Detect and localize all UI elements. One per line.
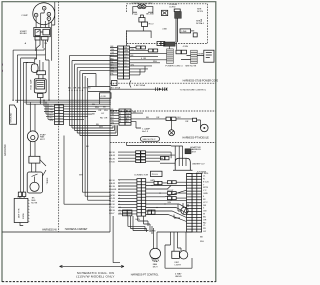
svg-text:BU: BU — [68, 88, 71, 90]
ground terminal hatched — [164, 42, 176, 46]
wires down from strips — [128, 216, 150, 232]
svg-text:WH: WH — [124, 51, 128, 53]
overload terminal box — [37, 71, 46, 75]
svg-text:4 OR: 4 OR — [101, 96, 107, 98]
svg-text:GN-Y: GN-Y — [109, 213, 115, 215]
svg-text:TN: TN — [111, 70, 114, 72]
grn splice boxes — [154, 181, 158, 184]
section divider right y111 — [110, 110, 216, 112]
terminal row below relay — [35, 37, 40, 40]
relay inner left — [35, 29, 40, 35]
junction dots bundle — [71, 100, 72, 101]
note pill box — [141, 137, 160, 142]
wires strip to icemaker strip — [146, 182, 187, 221]
svg-text:OR: OR — [185, 121, 189, 123]
svg-text:RD: RD — [111, 120, 115, 122]
compressor start winding pin — [42, 6, 46, 10]
relay inner right — [43, 29, 50, 35]
wire into hood — [160, 162, 175, 164]
svg-text:GN: GN — [111, 122, 115, 124]
run capacitor plates — [37, 82, 44, 86]
section divider right y142 — [110, 142, 216, 144]
wire bus y55 — [17, 54, 45, 56]
svg-text:GY-W: GY-W — [109, 192, 116, 194]
defrost thermostat box — [29, 156, 40, 163]
svg-text:MOT: MOT — [153, 266, 159, 268]
wire row labels right of stack — [131, 49, 158, 66]
wire risers into icemaker hood — [127, 143, 186, 167]
svg-text:OR: OR — [50, 112, 54, 114]
svg-text:VALVE: VALVE — [175, 275, 182, 278]
inline pair boxes — [166, 117, 171, 120]
crossing bends — [174, 203, 188, 218]
module stack left stubs — [110, 110, 119, 124]
svg-text:BU: BU — [111, 55, 114, 57]
module stack left labels — [111, 109, 115, 125]
wire left edge drop — [113, 216, 120, 263]
svg-text:4 WAY: 4 WAY — [175, 272, 182, 275]
lamp module circle — [169, 130, 175, 136]
svg-text:BU-W: BU-W — [109, 186, 116, 188]
splice pairs mid — [167, 181, 171, 184]
icemaker strip labels — [203, 176, 209, 234]
svg-text:GND: GND — [203, 193, 208, 195]
wire into overload — [35, 45, 43, 71]
svg-text:BU: BU — [124, 57, 127, 59]
svg-text:WH: WH — [104, 110, 108, 112]
bus drops to left stack — [44, 100, 48, 119]
power cord cable double line — [176, 18, 177, 42]
svg-text:BU-W: BU-W — [167, 190, 174, 192]
module wire labels — [133, 111, 189, 122]
svg-text:YL-W: YL-W — [109, 201, 115, 203]
svg-text:RELAY: RELAY — [20, 32, 28, 35]
control board connector strip — [137, 179, 146, 217]
small box pair above row — [157, 42, 161, 46]
svg-text:RD: RD — [126, 121, 130, 123]
svg-text:PK-W: PK-W — [109, 204, 116, 206]
wire thermostat to timer — [32, 163, 36, 172]
svg-text:BU: BU — [203, 216, 206, 218]
svg-text:OR: OR — [104, 118, 108, 120]
svg-text:HARNESS-PT CONTROL: HARNESS-PT CONTROL — [131, 273, 159, 276]
svg-text:RD-W: RD-W — [109, 198, 116, 200]
svg-text:600W: 600W — [23, 212, 25, 219]
svg-text:BR-W: BR-W — [109, 210, 116, 212]
wire into heater — [20, 197, 24, 199]
svg-text:CONNECTOR: CONNECTOR — [134, 175, 148, 177]
svg-text:COMPRESSOR CIRC: COMPRESSOR CIRC — [131, 3, 153, 5]
svg-text:GRN: GRN — [150, 180, 155, 182]
svg-text:LIGHT: LIGHT — [175, 265, 182, 267]
defrost timer cam — [30, 182, 39, 191]
svg-text:HARNESS-W: HARNESS-W — [42, 229, 57, 232]
svg-text:WH: WH — [200, 241, 204, 243]
left stack rows wires — [44, 106, 110, 119]
wire fan motor down — [30, 141, 35, 156]
svg-text:COMP: COMP — [21, 15, 28, 17]
comp-circ plug — [139, 18, 145, 22]
divider junction dots — [109, 89, 110, 205]
moisture control wire — [88, 87, 167, 92]
wire relay drops — [36, 37, 48, 56]
svg-text:HARNESS-PT MODULE: HARNESS-PT MODULE — [183, 137, 210, 140]
bundle lower bends to right — [69, 126, 117, 136]
svg-text:GN: GN — [111, 67, 115, 69]
svg-text:SEE NOTE 2: SEE NOTE 2 — [143, 139, 157, 141]
svg-text:VT-W: VT-W — [109, 207, 115, 209]
svg-text:GY-W: GY-W — [109, 161, 116, 163]
small box — [193, 118, 197, 121]
svg-text:BU: BU — [111, 117, 114, 119]
heater box — [14, 198, 28, 222]
svg-text:GRN: GRN — [135, 219, 140, 221]
border mark — [2, 64, 3, 66]
svg-text:RUN CAP: RUN CAP — [30, 79, 33, 89]
svg-text:DR: DR — [203, 205, 207, 207]
bottom rows wires left — [118, 180, 137, 214]
svg-text:SEE NOTE: SEE NOTE — [185, 66, 197, 68]
icemaker terminal column — [187, 174, 193, 233]
icemaker plug dark — [185, 149, 191, 154]
defrost timer square — [204, 50, 214, 62]
bundle label dots — [69, 90, 83, 91]
svg-text:BK-W: BK-W — [109, 180, 116, 182]
wire compressor pins to relay — [36, 10, 49, 28]
section divider horizontal left — [2, 231, 110, 233]
svg-text:4 BK 18GA: 4 BK 18GA — [134, 84, 145, 87]
compressor pin left — [34, 13, 38, 17]
leader to timer label — [40, 160, 46, 176]
svg-text:RD: RD — [124, 60, 128, 62]
wire cap to bus — [40, 55, 49, 104]
svg-text:CORD: CORD — [169, 7, 176, 9]
wire to timer square — [181, 56, 204, 60]
svg-text:WTR: WTR — [203, 187, 208, 189]
brace under stack — [130, 81, 131, 88]
svg-text:A=1.5: A=1.5 — [142, 130, 149, 133]
svg-text:WH-BK: WH-BK — [109, 189, 117, 191]
start relay / overload box — [34, 28, 51, 37]
power cord terminal block — [175, 12, 182, 19]
svg-text:NOTE 4: NOTE 4 — [196, 23, 205, 25]
evap fan motor hub — [31, 136, 35, 140]
svg-text:OR: OR — [111, 114, 115, 116]
bottom splice group left — [123, 210, 132, 216]
wire bus y59 — [21, 58, 37, 63]
svg-text:E 120: E 120 — [203, 181, 209, 183]
relay contact mark — [37, 31, 43, 33]
svg-text:WH: WH — [50, 109, 54, 111]
svg-text:OR-W: OR-W — [109, 155, 116, 157]
note box — [193, 33, 197, 37]
svg-text:RD: RD — [203, 222, 207, 224]
compressor shell — [33, 3, 55, 25]
freezer light bulb holder — [172, 251, 180, 258]
stack left stub wires — [110, 48, 118, 75]
svg-text:DEF HTR: DEF HTR — [19, 208, 21, 218]
center wire bundle verticals — [69, 56, 87, 201]
top rows wires — [118, 152, 175, 161]
svg-text:PLUG: PLUG — [152, 174, 158, 176]
wire bus y102 — [24, 101, 110, 103]
svg-text:BU: BU — [92, 104, 95, 106]
svg-text:BK-W: BK-W — [109, 152, 116, 154]
bundle top bends to right stack — [69, 56, 117, 87]
svg-text:GROUND: GROUND — [11, 112, 13, 122]
lamp module circle 2 — [201, 124, 209, 132]
module wires right — [131, 113, 201, 128]
bottom right wire — [165, 258, 192, 268]
ground legend box chamfered — [10, 105, 17, 124]
section divider vertical cabinet — [58, 2, 60, 232]
heater box hatch edge — [28, 200, 29, 222]
wire overload to cap — [39, 75, 43, 79]
plug box — [151, 171, 163, 176]
svg-text:GN: GN — [50, 120, 54, 122]
svg-text:GY: GY — [203, 231, 207, 233]
wire left drops — [13, 50, 28, 192]
run capacitor body — [34, 79, 46, 93]
comp-circ relay box — [142, 22, 148, 26]
main harness stack (power) — [118, 46, 130, 79]
bottom splice group right — [148, 210, 152, 214]
aux junction box — [100, 93, 112, 98]
stack left stub labels — [111, 46, 115, 75]
svg-text:FAN: FAN — [153, 263, 158, 266]
strip drops to lamp — [165, 232, 181, 268]
svg-text:4 WH: 4 WH — [183, 46, 189, 48]
inline connector symbol 2 — [163, 87, 168, 91]
compressor pin right lower — [47, 17, 51, 21]
section divider right y83 — [110, 82, 216, 84]
module stack — [119, 109, 131, 125]
svg-text:RD: RD — [111, 58, 115, 60]
wire bus y51 — [13, 48, 44, 50]
mesh stray labels — [92, 104, 108, 128]
splice pair row y51 — [176, 50, 181, 54]
svg-text:HARNESS-STUB POWER CORD: HARNESS-STUB POWER CORD — [183, 80, 218, 83]
svg-text:GY: GY — [124, 66, 128, 68]
power cord terminal block cap — [174, 9, 180, 12]
left stack row tick labels — [50, 106, 54, 122]
top rows splice boxes — [136, 151, 146, 163]
wire bus y100 — [15, 99, 110, 101]
svg-text:RD: RD — [88, 88, 92, 90]
connector tall second — [191, 50, 198, 63]
wires to motor — [148, 221, 186, 251]
svg-text:ASSY: ASSY — [190, 151, 196, 154]
plug blade box — [162, 10, 168, 15]
wire comp-circ loop — [133, 7, 153, 15]
defrost timer body — [27, 172, 42, 193]
svg-text:WH: WH — [111, 112, 115, 114]
svg-text:OR: OR — [124, 54, 128, 56]
wire to note box — [191, 30, 195, 32]
condenser fan motor symbol — [138, 5, 142, 9]
stack right wires row1 — [130, 48, 168, 75]
module stack cell marks — [120, 110, 130, 123]
svg-text:NOTE: NOTE — [197, 11, 204, 13]
svg-text:MTR: MTR — [199, 53, 204, 55]
cabinet connector stack — [55, 105, 64, 125]
inline connector symbol 1 — [156, 87, 161, 91]
svg-text:OR: OR — [111, 52, 115, 54]
svg-text:TN-W: TN-W — [109, 195, 116, 197]
motor hatch — [152, 259, 160, 263]
bends up into module stack — [112, 125, 118, 135]
hood left splice — [161, 156, 165, 159]
svg-text:RCO: RCO — [149, 24, 154, 26]
bundle bottom bends to right — [64, 136, 110, 205]
svg-text:HARNESS-CABINET: HARNESS-CABINET — [65, 228, 88, 231]
svg-text:OR-W: OR-W — [109, 183, 116, 185]
svg-text:POWER CORD 4: POWER CORD 4 — [165, 66, 183, 68]
overload protector — [31, 64, 38, 73]
thermostat circle — [181, 207, 188, 214]
svg-text:TO MOISTURE CONTROL: TO MOISTURE CONTROL — [180, 90, 207, 92]
junction dots bus — [40, 101, 41, 102]
wire power to stack area — [159, 42, 177, 50]
icemaker connector strip — [192, 174, 202, 233]
condenser fan motor — [150, 248, 161, 259]
svg-text:BU: BU — [126, 119, 129, 121]
timer switch mark — [32, 174, 38, 182]
icemaker mold hood — [175, 158, 190, 170]
svg-text:WATER VLV: WATER VLV — [192, 162, 205, 165]
svg-text:1 LAMP: 1 LAMP — [142, 128, 150, 131]
heater bottom stub — [20, 223, 23, 226]
svg-text:WH: WH — [111, 49, 115, 51]
compressor pin right upper — [47, 12, 51, 16]
svg-text:TIMER: TIMER — [47, 177, 49, 184]
border frame — [2, 2, 216, 282]
svg-text:OR: OR — [98, 110, 102, 112]
left label column bottom section — [109, 180, 117, 215]
cap bottom terminal — [38, 94, 44, 98]
svg-text:GY: GY — [111, 64, 115, 66]
run capacitor inner — [36, 80, 45, 89]
power cord section dashed box — [127, 4, 208, 44]
svg-text:LINE: LINE — [182, 31, 187, 33]
wire compressor right side down — [52, 2, 55, 61]
svg-text:NOTE: NOTE — [31, 203, 38, 205]
svg-text:4 BK: 4 BK — [162, 29, 167, 31]
svg-text:OR: OR — [203, 219, 207, 221]
wire drop to fan motor — [30, 102, 35, 131]
border bottom dashed — [2, 281, 216, 283]
svg-text:OR: OR — [73, 88, 77, 90]
svg-text:LP 2: LP 2 — [203, 202, 208, 204]
junction box divider — [112, 81, 118, 86]
stack cell pin marks — [118, 48, 128, 68]
svg-text:BU-W: BU-W — [109, 158, 116, 160]
svg-text:GRN: GRN — [151, 231, 156, 233]
block junction dots — [148, 185, 171, 212]
svg-text:WH: WH — [79, 174, 83, 176]
svg-text:MOT: MOT — [40, 139, 46, 141]
line junction box — [180, 29, 191, 33]
section divider vertical center — [109, 55, 111, 232]
svg-text:WH: WH — [126, 113, 130, 115]
svg-text:BK-W: BK-W — [146, 13, 153, 15]
svg-text:GY: GY — [101, 113, 105, 115]
left pair connector ends — [18, 192, 21, 196]
evap fan motor — [27, 131, 38, 142]
svg-text:GROUND: GROUND — [3, 144, 7, 156]
schematic pointer arrow — [60, 265, 125, 267]
svg-text:GN: GN — [203, 211, 207, 213]
wire rco down to stack — [127, 26, 152, 46]
svg-text:WH: WH — [83, 88, 87, 90]
svg-text:BU: BU — [50, 115, 53, 117]
freezer light bulb — [179, 251, 187, 259]
second label column — [119, 180, 122, 215]
wire bus y104 — [26, 103, 110, 105]
spade terminals row — [136, 46, 140, 49]
svg-text:(115V/W MODEL) ONLY: (115V/W MODEL) ONLY — [76, 274, 115, 278]
connector tall hatched — [167, 49, 174, 64]
svg-text:OR: OR — [126, 116, 130, 118]
